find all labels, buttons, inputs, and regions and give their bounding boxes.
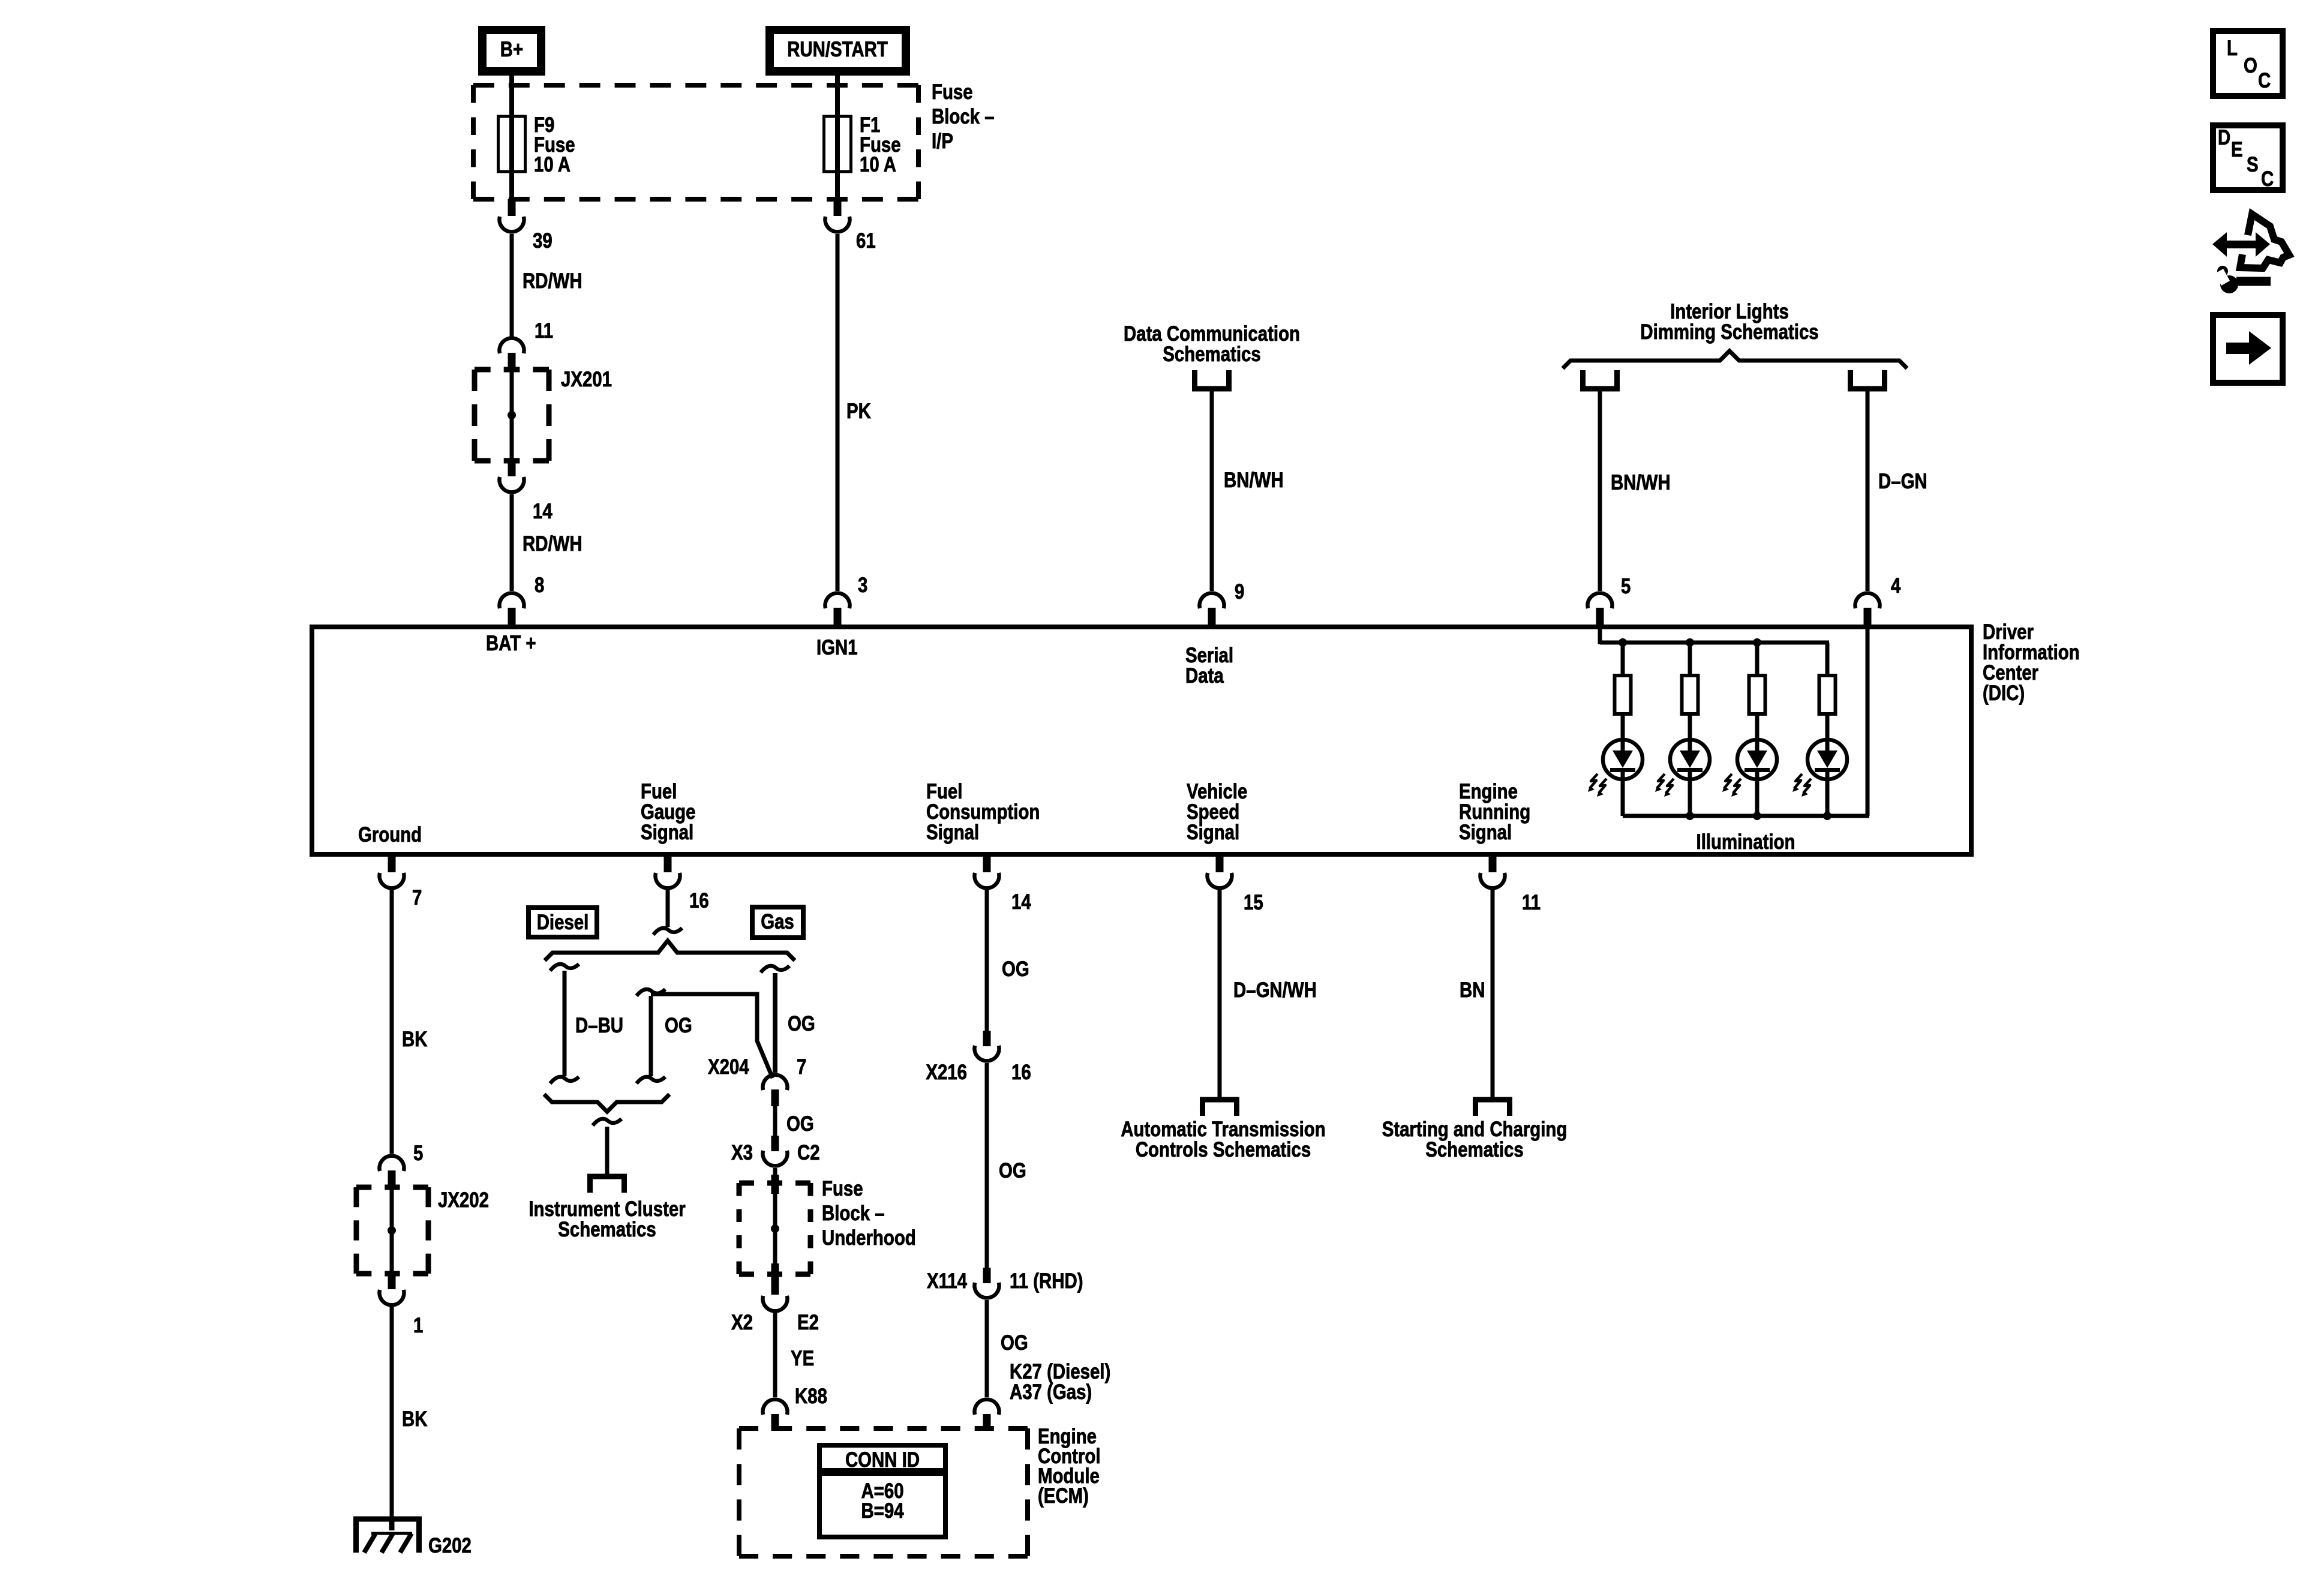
svg-text:D–GN/WH: D–GN/WH [1233, 978, 1317, 1002]
svg-text:BK: BK [402, 1407, 428, 1431]
svg-text:YE: YE [791, 1347, 814, 1370]
svg-text:7: 7 [797, 1055, 806, 1079]
svg-text:3: 3 [858, 574, 867, 597]
svg-text:Diesel: Diesel [537, 911, 589, 934]
svg-text:OG: OG [1001, 1331, 1028, 1355]
svg-text:Illumination: Illumination [1697, 830, 1795, 854]
svg-text:14: 14 [533, 500, 553, 523]
svg-text:X3: X3 [731, 1141, 753, 1164]
svg-text:O: O [2244, 54, 2257, 77]
svg-text:BN/WH: BN/WH [1611, 471, 1671, 494]
svg-text:D: D [2218, 126, 2230, 149]
svg-text:4: 4 [1891, 574, 1900, 598]
svg-text:K88: K88 [795, 1385, 827, 1408]
svg-text:PK: PK [846, 400, 871, 423]
svg-text:8: 8 [535, 574, 544, 597]
svg-text:RD/WH: RD/WH [523, 532, 582, 556]
svg-text:E: E [2231, 138, 2243, 161]
svg-text:CONN ID: CONN ID [845, 1448, 920, 1472]
svg-text:S: S [2247, 153, 2259, 176]
svg-text:1: 1 [413, 1314, 423, 1337]
svg-text:BK: BK [402, 1028, 428, 1051]
svg-text:11 (RHD): 11 (RHD) [1010, 1269, 1083, 1293]
svg-text:11: 11 [535, 319, 553, 343]
svg-text:JX201: JX201 [561, 368, 612, 391]
svg-text:X114: X114 [927, 1269, 967, 1293]
svg-text:B=94: B=94 [861, 1499, 903, 1523]
svg-text:C: C [2261, 167, 2274, 191]
svg-text:X204: X204 [708, 1055, 749, 1079]
svg-text:9: 9 [1235, 580, 1244, 604]
svg-text:VehicleSpeedSignal: VehicleSpeedSignal [1187, 780, 1247, 844]
svg-text:OG: OG [999, 1159, 1026, 1182]
svg-text:Ground: Ground [358, 823, 422, 846]
svg-text:5: 5 [1621, 575, 1631, 598]
svg-text:Automatic TransmissionControls: Automatic TransmissionControls Schematic… [1121, 1118, 1325, 1161]
svg-text:B+: B+ [500, 38, 523, 61]
svg-text:RUN/START: RUN/START [787, 38, 888, 61]
svg-text:OG: OG [665, 1014, 692, 1037]
svg-text:C: C [2258, 69, 2271, 92]
svg-text:X216: X216 [926, 1061, 967, 1084]
svg-text:BN: BN [1460, 978, 1485, 1002]
svg-text:L: L [2227, 37, 2238, 60]
svg-text:A37 (Gas): A37 (Gas) [1010, 1380, 1092, 1404]
svg-text:61: 61 [856, 229, 876, 253]
svg-text:14: 14 [1011, 890, 1031, 914]
svg-text:BN/WH: BN/WH [1224, 469, 1284, 492]
svg-text:G202: G202 [428, 1534, 472, 1557]
svg-text:15: 15 [1244, 891, 1263, 914]
svg-text:16: 16 [689, 889, 709, 912]
svg-text:5: 5 [413, 1142, 423, 1165]
svg-text:OG: OG [788, 1012, 815, 1035]
svg-text:Gas: Gas [761, 910, 794, 933]
svg-text:16: 16 [1011, 1061, 1031, 1084]
svg-text:7: 7 [412, 886, 422, 909]
svg-text:D–GN: D–GN [1878, 470, 1927, 493]
svg-text:BAT +: BAT + [486, 632, 536, 655]
svg-text:OG: OG [786, 1112, 814, 1136]
svg-text:39: 39 [533, 229, 553, 253]
svg-text:X2: X2 [731, 1311, 753, 1334]
svg-text:JX202: JX202 [438, 1188, 489, 1212]
svg-text:E2: E2 [797, 1311, 819, 1334]
svg-text:D–BU: D–BU [575, 1014, 623, 1037]
svg-text:IGN1: IGN1 [816, 636, 858, 659]
svg-text:RD/WH: RD/WH [523, 269, 582, 293]
svg-text:11: 11 [1522, 891, 1541, 914]
svg-text:OG: OG [1002, 957, 1029, 981]
svg-text:C2: C2 [797, 1141, 820, 1164]
